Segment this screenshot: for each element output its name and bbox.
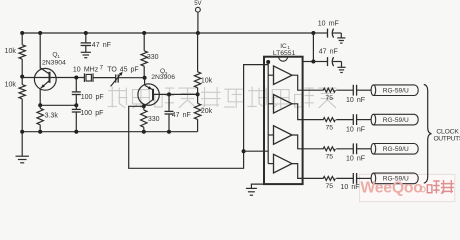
wire left rail upper [21,33,23,45]
wire Q2 base [153,93,198,95]
svg-text:OUTPUTS: OUTPUTS [433,135,460,142]
node rail 47nF [84,31,88,35]
wire row2 res-cap [336,119,353,121]
capacitor 10nF row2 [352,114,354,125]
wire emitter node [40,104,76,106]
node emitter-100pF [74,103,78,107]
svg-text:10 nF: 10 nF [346,97,365,104]
resistor 330 upper [143,33,145,51]
svg-text:75: 75 [326,154,334,161]
svg-text:5V: 5V [194,1,201,7]
svg-text:RG-59/U: RG-59/U [383,117,409,124]
resistor 75 row4 [323,176,335,180]
wire bottom rail [22,131,197,133]
wire left lower [21,99,23,132]
node rail 5V [196,31,200,35]
node rail Q1 collector [38,31,42,35]
watermark gray chinese text [108,87,336,108]
wire IC internal input bus [267,62,269,164]
node Q2 collector junction [142,104,146,108]
svg-text:330: 330 [148,116,160,123]
svg-text:330: 330 [147,54,159,61]
cable RG-59/U row3 [371,144,376,155]
op-amp buffer A1 [274,66,293,85]
capacitor trimmer 7-45pF [115,74,117,82]
wire IC ground stem [251,184,264,188]
IC input pin node [266,60,270,64]
svg-text:1: 1 [57,54,60,59]
ground 10mF [337,37,345,39]
wire row4 res-cap [336,177,353,179]
watermark weiku chars [427,181,453,194]
wire row4 cap-cable [357,177,372,179]
wire Q1 base [22,77,84,79]
wire output row4 to resistor [303,177,324,179]
node bottom-left [20,130,24,134]
capacitor 10nF row1 [352,85,354,96]
wire output row1 to resistor [303,89,324,91]
svg-text:2N3904: 2N3904 [42,60,66,67]
capacitor 47nF mid [168,94,170,111]
resistor 75 row2 [323,118,335,122]
wire supply drop [312,33,314,62]
transistor Q2 2N3906 [144,78,146,85]
svg-text:10 MHz: 10 MHz [73,66,99,73]
wire Q2 collector to IC input [129,65,269,169]
op-amp buffer A3 [274,126,293,145]
svg-text:10 nF: 10 nF [346,156,365,163]
brace clock outputs [424,84,432,183]
node emitter-3.3k [38,103,42,107]
svg-text:20k: 20k [201,108,213,115]
svg-text:LT6551: LT6551 [273,50,296,57]
resistor 3.3k [39,105,41,108]
wire Q1 emitter [39,89,41,106]
svg-text:100 pF: 100 pF [81,94,104,101]
node rail 330 [142,31,146,35]
IC notch [279,57,288,62]
wire IC supply pin [303,61,314,63]
op-amp buffer A4 [274,154,293,173]
node bottom-100pF [74,130,78,134]
wire ground stem left [21,132,23,157]
wire amp1 input branch [268,74,273,76]
node base-100pF junction [74,76,78,80]
svg-text:10k: 10k [5,82,17,89]
watermark box [360,174,455,201]
wire amp2 input branch [268,103,273,105]
ground 47nF right [337,66,345,68]
svg-text:WeeQoo: WeeQoo [360,179,423,196]
node bottom-330 [142,130,146,134]
svg-text:47 nF: 47 nF [319,49,338,56]
capacitor 100pF lower [75,105,77,109]
capacitor 10mF [313,32,327,34]
cable RG-59/U row1 [371,85,376,96]
resistor R-10k lower [19,85,25,99]
node Q1 base junction [20,75,24,79]
svg-text:47 nF: 47 nF [92,42,111,49]
resistor 10k divider [197,33,199,72]
ground IC [246,187,257,189]
node IC supply pin [311,60,315,64]
node rail IC supply [311,31,315,35]
svg-text:47 nF: 47 nF [172,112,191,119]
transistor Q1 2N3904 [34,68,56,90]
cable RG-59/U row4 [371,173,376,184]
capacitor 47nF left [85,33,87,43]
svg-text:3.3k: 3.3k [45,113,59,120]
node bottom-3.3k [38,130,42,134]
svg-text:75: 75 [326,183,334,190]
svg-text:RG-59/U: RG-59/U [383,146,409,153]
wire amp3 input branch [268,134,273,136]
ground 47nF left [81,51,91,53]
wire Q1 collector [39,33,41,69]
svg-text:10 nF: 10 nF [346,126,365,133]
wire row3 cap-cable [357,148,372,150]
resistor 75 row1 [323,88,335,92]
svg-text:10 nF: 10 nF [340,184,359,191]
svg-text:2N3906: 2N3906 [151,74,175,81]
crystal Y1 10MHz [83,73,85,82]
watermark WeeQoo R mark [420,187,425,192]
node input bus junction [242,149,246,153]
wire row3 res-cap [336,148,353,150]
resistor 330 lower [143,106,145,110]
ground left [16,155,29,157]
capacitor 10nF row4 [352,173,354,184]
svg-text:100 pF: 100 pF [80,110,103,117]
svg-text:IC: IC [280,43,287,50]
wire input to IC pin3 [244,150,269,152]
wire row1 res-cap [336,89,353,91]
resistor R-10k upper [19,45,25,59]
svg-text:75: 75 [326,95,334,102]
op-amp buffer A2 [274,95,293,114]
wire row2 cap-cable [357,119,372,121]
svg-text:10k: 10k [201,77,213,84]
wire amp1 output jog [292,75,303,90]
svg-text:75: 75 [326,124,334,131]
node base-47nF [167,92,171,96]
svg-text:TO 45 pF: TO 45 pF [107,66,138,73]
wire amp4 output jog [292,164,303,179]
capacitor 10nF row3 [352,143,354,154]
wire row1 cap-cable [357,89,372,91]
capacitor 47nF right [313,61,327,63]
node base divider tap [196,92,200,96]
wire output row3 to resistor [303,148,324,150]
wire amp4 input branch [268,163,273,165]
wire left mid [21,59,23,84]
wire output row2 to resistor [303,119,324,121]
cable RG-59/U row2 [371,114,376,125]
resistor 75 row3 [323,147,335,151]
node rail-left resistors [20,31,24,35]
node bottom-47nF [167,130,171,134]
wire amp2 output jog [292,104,303,120]
resistor 20k divider [194,103,200,119]
svg-text:10 mF: 10 mF [318,21,339,28]
node Q2 emitter junction [143,76,147,80]
op-amp IC U1 LT6551 body [264,57,303,184]
svg-text:RG-59/U: RG-59/U [383,88,409,95]
svg-text:10k: 10k [5,48,17,55]
capacitor 100pF upper [75,78,77,92]
wire top 5V rail [22,32,313,34]
supply terminal 5V [197,12,199,33]
wire amp3 output jog [292,135,303,149]
